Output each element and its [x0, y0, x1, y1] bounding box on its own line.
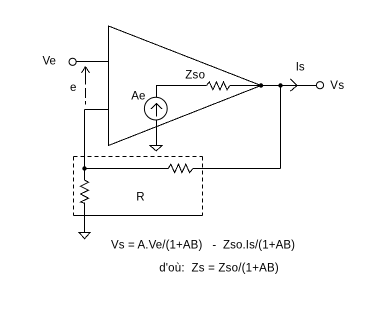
wire inverting input stub: [85, 109, 109, 111]
node feedback junction: [82, 166, 86, 170]
terminal Vs: [316, 82, 323, 89]
wire Ve input: [77, 61, 109, 63]
node op-amp output apex: [259, 83, 263, 87]
ground (left): [79, 233, 90, 239]
svg-text:Vs: Vs: [330, 80, 344, 92]
svg-text:Is: Is: [296, 61, 305, 73]
node output junction: [278, 83, 282, 87]
wire feedback to output: [193, 86, 281, 169]
ground (center): [150, 146, 162, 151]
svg-text:Zso: Zso: [185, 70, 205, 82]
current source arrow: [151, 103, 162, 116]
resistor R (vertical): [81, 169, 89, 233]
op-amp U1 (controlled source block): [109, 26, 262, 146]
wire output: [261, 85, 316, 87]
resistor Zso: [207, 82, 230, 90]
current arrow Is (chevron): [290, 79, 297, 91]
feedback network box bottom edge: [74, 215, 203, 217]
error voltage arrow e (dashed): [82, 67, 90, 105]
wire feedback left vertical: [84, 110, 86, 169]
current source Ae: [144, 97, 167, 120]
svg-text:e: e: [70, 82, 76, 94]
resistor (horizontal, feedback): [168, 164, 193, 173]
svg-text:Ae: Ae: [131, 91, 145, 103]
svg-text:d'où: Zs = Zso/(1+AB): d'où: Zs = Zso/(1+AB): [159, 263, 279, 275]
svg-text:Ve: Ve: [43, 56, 56, 68]
svg-text:R: R: [136, 192, 144, 204]
wire current source to ground: [156, 120, 158, 146]
feedback network box (dashed): [74, 157, 203, 216]
wire Zso to output apex: [230, 85, 261, 87]
terminal Ve: [69, 58, 76, 65]
wire feedback horizontal: [85, 168, 169, 170]
svg-text:Vs = A.Ve/(1+AB) - Zso.Is/(: Vs = A.Ve/(1+AB) - Zso.Is/(1+AB): [111, 240, 295, 252]
wire current source to Zso: [157, 86, 207, 98]
